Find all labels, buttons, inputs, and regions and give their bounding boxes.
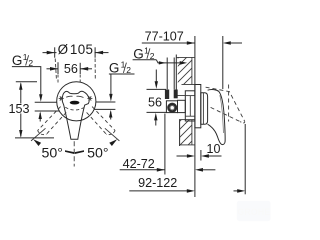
dashed open lever — [206, 87, 245, 121]
union ring — [168, 103, 177, 112]
dim 56 front — [47, 68, 59, 70]
left supply pipe lines — [35, 101, 57, 103]
hatch caps — [176, 56, 195, 58]
dashed open-lever front edge — [228, 85, 230, 122]
svg-text:56: 56 — [148, 96, 162, 110]
dim 153 — [16, 81, 37, 83]
svg-text:G: G — [109, 61, 120, 76]
up arrow lower-right pipe — [110, 112, 112, 120]
lever cap inner texture — [66, 96, 72, 97]
prong nuts on pipe (dark) — [165, 90, 169, 100]
svg-text:G: G — [12, 53, 23, 68]
svg-text:105: 105 — [70, 42, 93, 57]
svg-text:10: 10 — [207, 142, 221, 156]
wall back line lower — [179, 120, 181, 146]
escutcheon circle — [57, 82, 96, 121]
valve body block — [185, 91, 195, 121]
faint GROHE logo watermark — [237, 201, 271, 221]
handle cap — [201, 93, 208, 125]
angle leg + arc arrow left — [31, 128, 46, 141]
svg-text:153: 153 — [8, 102, 29, 116]
svg-text:50°: 50° — [87, 145, 108, 161]
dim 56 side — [147, 88, 167, 90]
angle vertex wedges — [65, 150, 74, 154]
up arrow lower-left pipe — [39, 113, 41, 122]
rosette — [195, 85, 201, 128]
lever handle front outline — [62, 91, 89, 139]
wall back line upper — [175, 55, 177, 91]
connector between housing and body — [178, 100, 186, 112]
star mark left — [59, 96, 64, 100]
black pin oval — [70, 101, 80, 105]
solid lever side — [208, 89, 226, 144]
svg-text:42-72: 42-72 — [123, 157, 155, 171]
right supply pipe lines — [96, 101, 116, 103]
dashed lever rotated right 50 — [92, 107, 115, 131]
svg-text:G: G — [133, 46, 144, 61]
supply union housing — [166, 101, 177, 113]
dashed lever rotated left 50 — [38, 107, 61, 131]
svg-text:50°: 50° — [41, 145, 62, 161]
angle leg + arc arrow right — [105, 128, 120, 141]
svg-text:Ø: Ø — [58, 42, 68, 57]
wall face line — [194, 36, 196, 197]
star mark right — [87, 96, 92, 100]
vertical dashed centerline below lever — [73, 141, 75, 166]
wall inner surface lines — [191, 57, 193, 84]
svg-text:56: 56 — [64, 62, 78, 76]
dim Ø105 — [43, 52, 96, 54]
dashed smile arc — [65, 107, 84, 110]
svg-text:92-122: 92-122 — [138, 176, 177, 190]
supply pipe verticals above union — [166, 58, 168, 90]
svg-text:77-107: 77-107 — [145, 29, 184, 43]
svg-text:GROHE: GROHE — [237, 207, 270, 217]
